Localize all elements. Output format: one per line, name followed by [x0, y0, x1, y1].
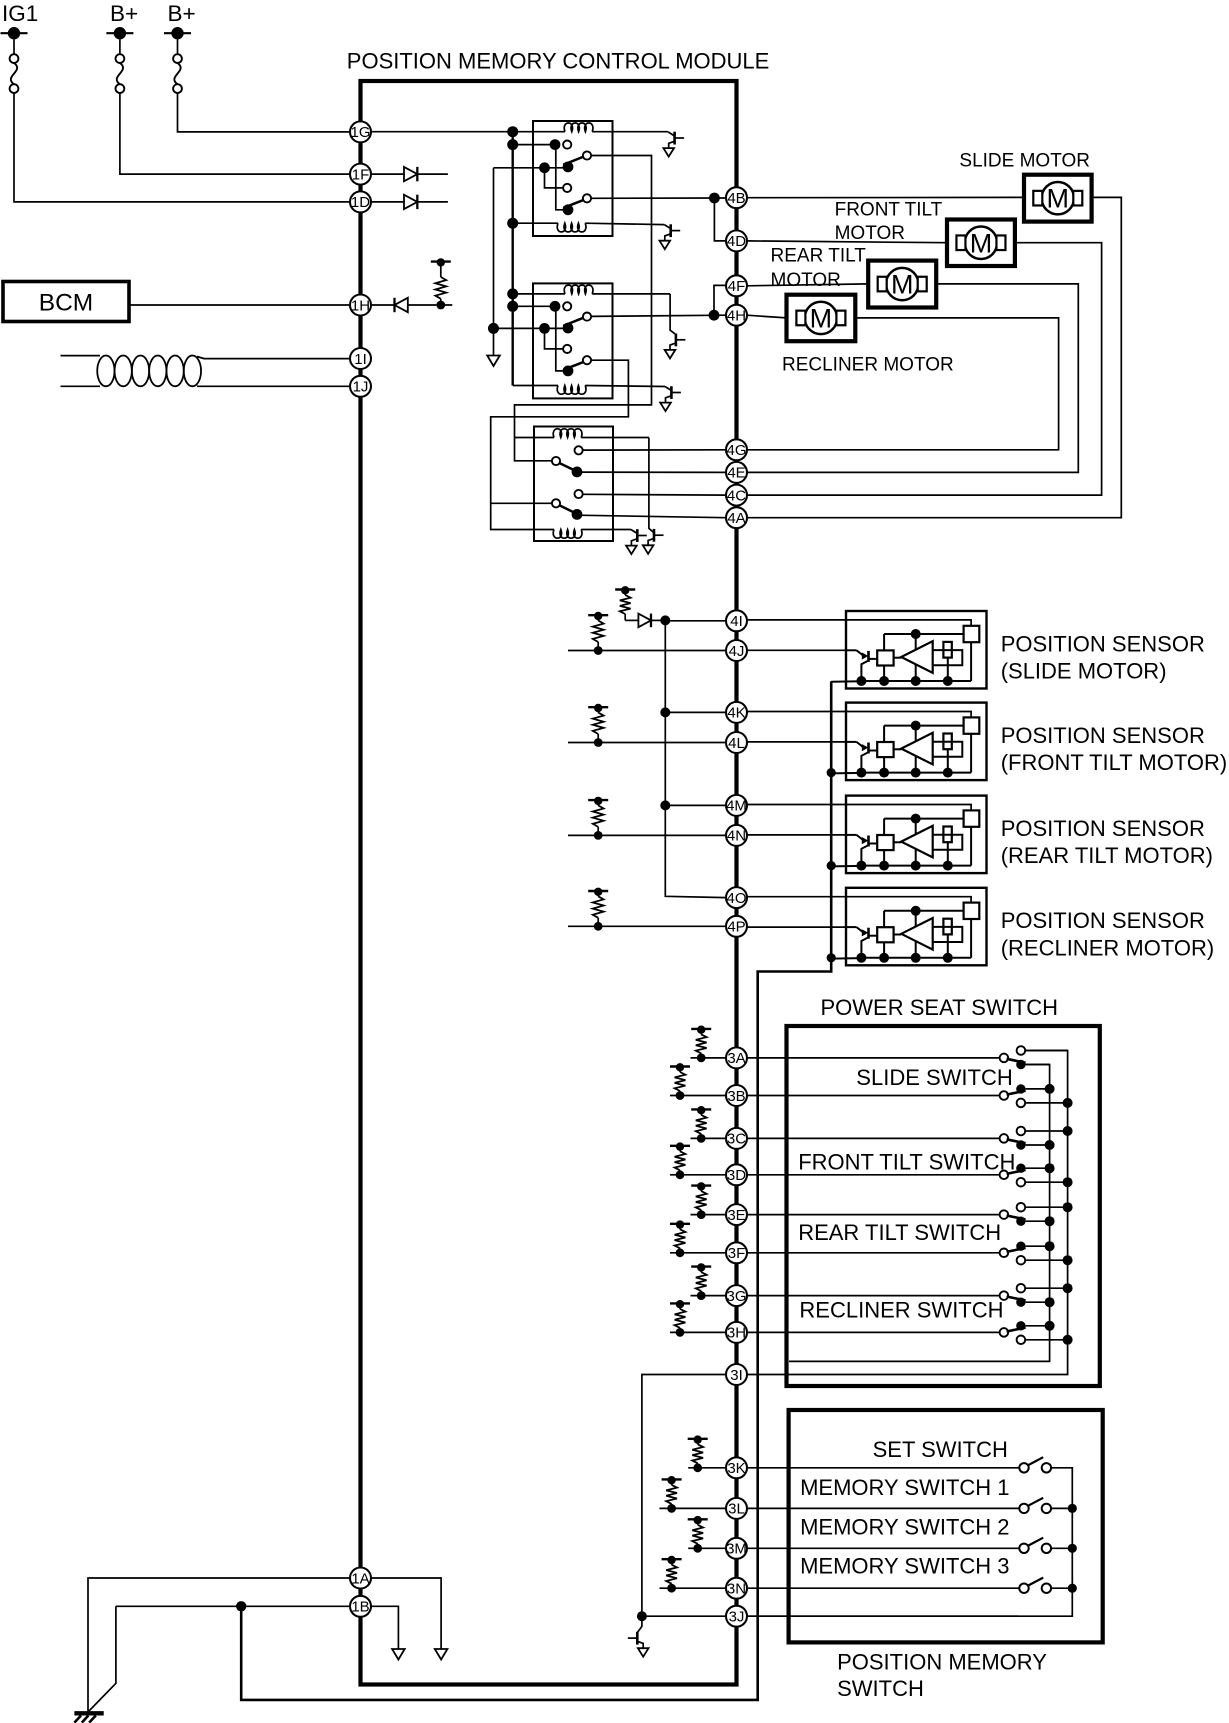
sensor amplifier triangle: [894, 748, 902, 750]
contact K3 fixed 4G: [575, 446, 583, 454]
resistor pull-up 4I: [624, 614, 626, 619]
svg-text:3D: 3D: [727, 1167, 746, 1184]
ground arrow 1B: [392, 1649, 405, 1660]
switch throw filled: [1016, 1164, 1025, 1173]
sensor connector square top right: [964, 626, 980, 642]
wire pin 3E to switch: [691, 1214, 1000, 1216]
switch throw filled: [1016, 1242, 1025, 1251]
svg-text:IG1: IG1: [2, 1, 38, 26]
junction 1G rail: [507, 126, 518, 137]
wire pin 3L: [660, 1507, 1020, 1509]
pin 3C: [726, 1128, 747, 1149]
wire 1A to arrow: [371, 1578, 441, 1649]
wire IG1 to 1D: [14, 93, 350, 202]
position memory switch box: [789, 1410, 1103, 1642]
resistor pull-up 4N: [594, 831, 603, 840]
pin 3G: [726, 1285, 747, 1306]
svg-text:4K: 4K: [727, 705, 745, 722]
svg-text:FRONT TILT SWITCH: FRONT TILT SWITCH: [798, 1149, 1015, 1174]
diode at 1H: [371, 304, 395, 306]
pin 1G: [350, 121, 371, 142]
transistor Q5 relay K3 coil2 driver: [631, 530, 637, 534]
pin 3I: [726, 1364, 747, 1385]
transistor Q6 relay K3 coil1 driver: [653, 529, 656, 542]
junction sensor rail 2: [827, 768, 836, 777]
junction K1 wire2: [539, 162, 550, 173]
pin 4M: [726, 795, 747, 816]
svg-text:FRONT TILT: FRONT TILT: [835, 199, 943, 220]
svg-text:(RECLINER MOTOR): (RECLINER MOTOR): [1001, 935, 1214, 960]
pin 1H: [350, 295, 371, 316]
junction bus2 relay K2 wire2: [488, 323, 499, 334]
resistor pull-up 3D: [676, 1170, 685, 1179]
wire K1 throw1 down to relay K3: [515, 156, 652, 461]
svg-text:MOTOR: MOTOR: [771, 270, 841, 291]
wire K3 coil1 to Q6: [649, 438, 654, 533]
rear tilt motor M3: [868, 261, 936, 308]
wire to K2 upper fixed contact: [513, 305, 555, 307]
resistor pull-up 3H: [676, 1328, 685, 1337]
svg-text:1J: 1J: [353, 379, 369, 396]
resistor pull-up 4P: [594, 922, 603, 931]
wire pin to sensor (FRONT TILT MOTOR): [747, 711, 846, 713]
svg-text:POSITION MEMORY: POSITION MEMORY: [837, 1649, 1047, 1674]
position memory control module box: [361, 81, 737, 1685]
pin 4C: [726, 485, 747, 506]
junction memory bus: [1068, 1584, 1077, 1593]
svg-text:4L: 4L: [728, 735, 745, 752]
svg-text:BCM: BCM: [39, 290, 93, 317]
svg-text:(SLIDE MOTOR): (SLIDE MOTOR): [1001, 659, 1167, 684]
switch throw filled: [1016, 1084, 1025, 1093]
relay K2 coil 2: [513, 385, 558, 387]
pin 4H: [726, 305, 747, 326]
svg-text:(FRONT TILT MOTOR): (FRONT TILT MOTOR): [1001, 750, 1228, 775]
junction inner bus: [1045, 1216, 1055, 1226]
pin 3B: [726, 1085, 747, 1106]
K1 NC branch: [545, 168, 564, 188]
svg-text:(REAR TILT MOTOR): (REAR TILT MOTOR): [1001, 843, 1213, 868]
switch throw filled: [1016, 1060, 1025, 1069]
wire pin 3G to switch: [691, 1295, 1000, 1297]
wire pin 3B to switch: [670, 1095, 1000, 1097]
wire 4H to 4F: [714, 285, 726, 315]
svg-text:3B: 3B: [727, 1088, 745, 1105]
svg-text:SET SWITCH: SET SWITCH: [873, 1437, 1008, 1462]
wire slide motor return to 4A: [747, 197, 1121, 517]
wire recliner return to 4G: [747, 318, 1059, 450]
sensor square: [877, 927, 893, 942]
svg-text:4M: 4M: [726, 798, 747, 815]
sensor top feed: [846, 805, 971, 811]
recliner motor M4: [787, 295, 856, 342]
resistor pull-up 3M: [693, 1544, 702, 1553]
contact K1 throw 2 to 4B: [583, 194, 591, 202]
K1 pole 2: [563, 204, 574, 215]
wire 4M: [665, 804, 726, 806]
sensor amplifier triangle: [894, 934, 902, 936]
svg-text:4J: 4J: [729, 643, 745, 660]
K2 arm 1: [563, 318, 583, 326]
pin 1J: [350, 376, 371, 397]
switch throw filled: [1016, 1298, 1025, 1307]
switch arm: [1007, 1139, 1026, 1143]
junction outer bus: [1063, 1202, 1073, 1212]
wire 1G rail to relay K1 coil: [371, 131, 565, 133]
switch common: [1000, 1249, 1009, 1258]
switch arm: [1007, 1216, 1026, 1220]
svg-text:3M: 3M: [726, 1541, 747, 1558]
switch common: [1000, 1134, 1009, 1143]
wire front tilt return to 4C: [747, 243, 1102, 495]
sensor square: [877, 650, 893, 665]
relay K1 coil 1: [564, 123, 593, 132]
pin 1A: [350, 1568, 371, 1589]
sensor square: [877, 835, 893, 850]
resistor pull-up 1H: [436, 304, 452, 306]
resistor pull-up 3B: [676, 1091, 685, 1100]
pin 3M: [726, 1538, 747, 1559]
junction inner bus: [1045, 1321, 1055, 1331]
svg-text:3I: 3I: [730, 1367, 743, 1384]
twisted pair wires to 1I 1J: [61, 355, 101, 357]
junction K2 coil1: [507, 288, 518, 299]
diode at 1D: [371, 201, 404, 203]
relay K3 box: [534, 427, 613, 542]
relay K3 coil 1: [515, 437, 555, 439]
transistor Q7 at 3J: [637, 1616, 642, 1632]
junction outer bus: [1063, 1126, 1073, 1136]
sensor amplifier triangle: [894, 841, 902, 843]
wire K2 throw2 down to relay K3: [491, 360, 629, 529]
diode 4I: [625, 619, 638, 621]
K3 throw 1 filled: [572, 467, 583, 478]
sensor square: [877, 742, 893, 757]
pin 4D: [726, 230, 747, 251]
contact K2 lower fixed: [563, 345, 571, 353]
position sensor box (FRONT TILT MOTOR): [846, 703, 987, 781]
svg-text:M: M: [1047, 184, 1070, 214]
sensor output bracket: [933, 927, 963, 942]
svg-text:B+: B+: [168, 1, 196, 26]
wire K2 throw1 to pin 4H: [591, 315, 726, 316]
position sensor box (REAR TILT MOTOR): [846, 796, 987, 874]
ground arrow bus2: [487, 356, 500, 367]
K1 arm 2: [563, 200, 583, 208]
wire pin 3N: [660, 1587, 1020, 1589]
switch throw open: [1017, 1178, 1026, 1187]
svg-text:4N: 4N: [727, 828, 746, 845]
wire 4K: [665, 711, 726, 713]
transistor Q3 relay K2 coil1 driver: [675, 334, 678, 347]
transistor Q4 relay K2 coil2 driver: [665, 387, 671, 391]
sensor amplifier triangle: [894, 657, 902, 659]
sensor top rail: [884, 633, 964, 635]
K2 pole 2: [563, 366, 574, 377]
contact K1 upper fixed: [563, 141, 571, 149]
junction memory bus: [1068, 1544, 1077, 1553]
svg-text:3H: 3H: [727, 1325, 746, 1342]
svg-text:MEMORY SWITCH 2: MEMORY SWITCH 2: [800, 1515, 1009, 1540]
junction outer bus: [1063, 1283, 1073, 1293]
svg-text:3J: 3J: [729, 1609, 745, 1626]
svg-text:4P: 4P: [727, 919, 745, 936]
junction outer bus: [1063, 1255, 1073, 1265]
svg-text:POSITION MEMORY CONTROL MODULE: POSITION MEMORY CONTROL MODULE: [347, 48, 770, 73]
sensor resistor block: [943, 919, 951, 935]
B+ connector 2: [177, 39, 179, 54]
pin 1F: [350, 164, 371, 185]
wire B+2 to 1G: [178, 93, 351, 132]
switch arm: [1007, 1248, 1026, 1252]
wire ground return loop: [241, 681, 831, 1700]
pin 1D: [350, 191, 371, 212]
junction memory bus: [1068, 1504, 1077, 1513]
svg-text:REAR TILT SWITCH: REAR TILT SWITCH: [798, 1220, 1001, 1245]
junction 1B ground loop: [236, 1601, 246, 1611]
svg-text:MEMORY SWITCH 1: MEMORY SWITCH 1: [800, 1475, 1009, 1500]
sensor top feed: [846, 620, 971, 626]
B+ connector 1: [119, 39, 121, 54]
resistor pull-up 4J: [594, 646, 603, 655]
svg-text:SWITCH: SWITCH: [837, 1676, 924, 1701]
switch arm: [1007, 1328, 1026, 1332]
wire rear tilt return to 4E: [747, 284, 1078, 473]
sensor top rail: [884, 725, 964, 727]
svg-text:4E: 4E: [727, 465, 745, 482]
junction 3J: [637, 1611, 647, 1621]
sensor ground rail: [831, 772, 861, 775]
sensor connector square top right: [964, 810, 980, 826]
pin 3H: [726, 1322, 747, 1343]
motor wires 4H: [747, 315, 787, 318]
sensor input transistor: [846, 741, 857, 743]
svg-text:1G: 1G: [350, 124, 370, 141]
K1 pole 1: [563, 162, 574, 173]
resistor pull-up 3N: [667, 1584, 676, 1593]
wire pin to sensor (SLIDE MOTOR): [747, 619, 846, 621]
svg-text:RECLINER MOTOR: RECLINER MOTOR: [782, 355, 954, 376]
K3 arm 2: [560, 506, 574, 513]
pin 4E: [726, 462, 747, 483]
transistor Q2 relay K1 coil2 driver: [664, 225, 670, 229]
svg-text:POSITION SENSOR: POSITION SENSOR: [1001, 816, 1205, 841]
svg-text:REAR TILT: REAR TILT: [771, 245, 867, 266]
wire K1 throw2 to pin 4B: [591, 197, 726, 199]
pin 4F: [726, 275, 747, 296]
relay K2 box: [533, 283, 613, 398]
contact K2 throw 2: [583, 356, 591, 364]
wire 4J stub: [568, 650, 726, 652]
pin 3D: [726, 1164, 747, 1185]
junction inner bus: [1045, 1084, 1055, 1094]
wire pin 3F to switch: [670, 1252, 1000, 1254]
pin 3L: [726, 1498, 747, 1519]
memory switch bus: [747, 1468, 1072, 1616]
switch common: [1000, 1091, 1009, 1100]
bus B+ rail vertical: [512, 132, 514, 386]
K2 arm 2: [563, 362, 583, 370]
pin 4L: [726, 732, 747, 753]
relay K2 coil 1: [513, 293, 565, 295]
wire 4P stub: [568, 925, 726, 927]
svg-text:4A: 4A: [727, 510, 745, 527]
wire pin 3J: [642, 1615, 1019, 1617]
svg-text:1I: 1I: [354, 351, 367, 368]
K3 pole 2: [552, 499, 560, 507]
svg-text:POSITION SENSOR: POSITION SENSOR: [1001, 631, 1205, 656]
switch 3N: [1019, 1584, 1028, 1593]
relay K1 coil 2: [513, 222, 558, 224]
K2 NC branch: [545, 328, 564, 349]
switch arm: [1007, 1297, 1026, 1301]
junction outer bus: [1063, 1098, 1073, 1108]
pin 3A: [726, 1047, 747, 1068]
svg-text:POWER SEAT SWITCH: POWER SEAT SWITCH: [821, 995, 1059, 1020]
junction 4I star: [660, 615, 670, 625]
motor wires 4B: [747, 196, 1024, 198]
wire K3 throw2 to pin 4A: [577, 515, 726, 518]
resistor pull-up 3G: [697, 1291, 706, 1300]
wire pin to sensor (RECLINER MOTOR): [747, 896, 846, 898]
BCM box: [3, 282, 129, 322]
K3 arm 1: [560, 463, 574, 470]
pin 4N: [726, 825, 747, 846]
junction sensor rail 3: [827, 861, 836, 870]
sensor resistor block: [943, 734, 951, 750]
switch arm: [1007, 1059, 1026, 1063]
K2 pole 1: [563, 323, 574, 334]
contact K2 throw 1 to 4H: [583, 313, 591, 321]
junction inner bus: [1045, 1297, 1055, 1307]
svg-text:4G: 4G: [726, 442, 746, 459]
svg-text:M: M: [891, 270, 914, 300]
switch throw filled: [1016, 1321, 1025, 1330]
resistor pull-up 3L: [667, 1504, 676, 1513]
svg-text:1A: 1A: [351, 1570, 369, 1587]
switch 3K: [1019, 1463, 1028, 1472]
contact K1 lower fixed: [563, 184, 571, 192]
switch common: [1000, 1171, 1009, 1180]
junction K2 NC feed: [507, 301, 518, 312]
contact K1 throw 1 to motor bus: [583, 151, 591, 159]
pin 4O: [726, 887, 747, 908]
switch common: [1000, 1328, 1009, 1337]
svg-text:3L: 3L: [728, 1501, 745, 1518]
resistor pull-up 3C: [697, 1134, 706, 1143]
pin 3J: [726, 1606, 747, 1627]
transistor Q1 relay K1 coil1 driver: [668, 132, 674, 136]
switch throw open: [1017, 1203, 1026, 1212]
pin 4P: [726, 916, 747, 937]
svg-text:3G: 3G: [726, 1288, 746, 1305]
sensor top feed: [846, 897, 971, 903]
wire pin 3M: [688, 1547, 1019, 1549]
switch throw open: [1017, 1099, 1026, 1108]
svg-text:M: M: [810, 303, 833, 333]
relay K3 coil 2: [553, 530, 582, 539]
wire2 into K1: [494, 167, 564, 169]
pin 3K: [726, 1457, 747, 1478]
wire K3 to pin 4G: [583, 449, 726, 451]
wire K3 throw1 to pin 4E: [577, 471, 726, 473]
wire pin 3D to switch: [670, 1174, 1000, 1176]
resistor pull-up 4L: [594, 738, 603, 747]
junction K1 upper contact: [550, 139, 561, 150]
relay K1 box: [533, 121, 613, 236]
switch throw open: [1017, 1284, 1026, 1293]
wire 4I: [665, 620, 726, 622]
K1 crossover link: [556, 147, 564, 210]
junction 4B-4D tie: [709, 193, 720, 204]
resistor pull-up 3E: [697, 1210, 706, 1219]
sensor input transistor: [846, 834, 857, 836]
switch throw filled: [1016, 1217, 1025, 1226]
wire 4N stub: [568, 834, 726, 836]
wire to K1 upper fixed contact: [513, 144, 555, 146]
junction 4F-4H tie: [709, 310, 720, 321]
wire K2 coil1 to Q3: [670, 294, 676, 335]
contact K3 fixed 4C: [575, 490, 583, 498]
junction inner bus: [1045, 1140, 1055, 1150]
switch throw open: [1017, 1336, 1026, 1345]
svg-text:3E: 3E: [727, 1207, 745, 1224]
junction inner bus: [1045, 1241, 1055, 1251]
wire pin to sensor (REAR TILT MOTOR): [747, 804, 846, 806]
sensor top feed: [846, 712, 971, 718]
switch common: [1000, 1054, 1009, 1063]
switch bus inner: [789, 1065, 1050, 1362]
front tilt motor M2: [947, 220, 1015, 267]
wire 4L stub: [568, 742, 726, 744]
wire 3I left branch: [642, 1375, 726, 1617]
pin 3E: [726, 1204, 747, 1225]
sensor resistor block: [943, 827, 951, 843]
svg-text:4D: 4D: [727, 233, 746, 250]
contact K2 upper fixed: [563, 302, 571, 310]
svg-text:3N: 3N: [727, 1581, 746, 1598]
svg-text:M: M: [970, 228, 993, 258]
sensor connector square top right: [964, 903, 980, 919]
switch 3M: [1019, 1544, 1028, 1553]
sensor resistor block: [943, 642, 951, 658]
pin 4J: [726, 640, 747, 661]
junction 4M: [660, 800, 670, 810]
diode at 1F: [371, 173, 404, 175]
chassis ground: [74, 1711, 103, 1715]
svg-text:3F: 3F: [728, 1245, 746, 1262]
sensor ground rail: [831, 680, 861, 683]
wire pin 3H to switch: [670, 1331, 1000, 1333]
svg-text:4H: 4H: [727, 308, 746, 325]
wire pin 3K: [688, 1467, 1019, 1469]
pin 3F: [726, 1242, 747, 1263]
pin 4G: [726, 439, 747, 460]
sensor output bracket: [933, 650, 963, 665]
pin 1I: [350, 348, 371, 369]
resistor pull-up 3F: [676, 1248, 685, 1257]
switch arm: [1007, 1170, 1026, 1174]
svg-text:1B: 1B: [351, 1599, 369, 1616]
sensor top rail: [884, 818, 964, 820]
sensor input transistor: [846, 926, 857, 928]
junction relay K1 NC feed: [507, 139, 518, 150]
svg-text:4O: 4O: [726, 890, 746, 907]
bus2 vertical to ground arrow: [493, 168, 495, 356]
resistor pull-up 3A: [697, 1054, 706, 1063]
motor wires 4F: [747, 284, 868, 286]
wire K3 to pin 4C: [583, 493, 726, 496]
